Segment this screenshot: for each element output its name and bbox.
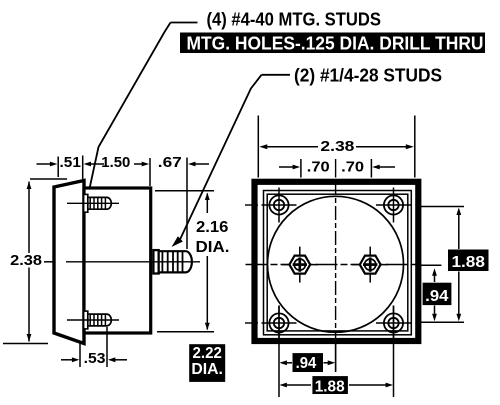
mounting hole bottom-right <box>376 306 411 341</box>
label (2) #1/4-28 STUDS <box>294 65 442 85</box>
terminal stud (#1/4-28) side view <box>66 250 200 273</box>
callout bar MTG. HOLES-.125 DIA. DRILL THRU <box>180 33 485 54</box>
extension line body rear (1.50/.67) <box>149 158 151 186</box>
svg-text:.94: .94 <box>425 288 449 305</box>
rear view inner square 1 <box>264 191 412 335</box>
svg-text:DIA.: DIA. <box>191 361 223 378</box>
rear view outer flange (thick square) <box>255 182 419 341</box>
dimension 2.16 DIA. <box>155 191 229 332</box>
svg-text:(2) #1/4-28 STUDS: (2) #1/4-28 STUDS <box>294 65 442 85</box>
svg-text:.70: .70 <box>341 159 364 175</box>
svg-text:.53: .53 <box>84 351 106 367</box>
dimension 1.88 right side <box>448 208 489 322</box>
label (4) #4-40 MTG. STUDS <box>207 10 382 30</box>
extension lines below rear view <box>279 306 394 398</box>
arrow out of .67 <box>188 162 209 167</box>
leader dash for #1/4-28 label <box>262 74 291 76</box>
svg-text:DIA.: DIA. <box>196 239 230 256</box>
terminal stud right (hex) <box>352 247 388 283</box>
dimension .70 .70 rear view <box>279 159 395 178</box>
centerline stub left top hole row <box>245 204 258 206</box>
svg-text:.94: .94 <box>296 355 317 372</box>
horizontal centerline rear view <box>246 264 419 266</box>
dimension text .67 <box>158 155 182 171</box>
svg-text:MTG. HOLES-.125 DIA. DRILL THR: MTG. HOLES-.125 DIA. DRILL THRU <box>187 33 484 53</box>
mounting stud top (#4-40) side view <box>67 194 119 212</box>
mounting stud bottom (#4-40) side view <box>67 311 119 329</box>
dimension .53 below bezel <box>61 327 127 367</box>
leader line to top mounting stud <box>86 23 171 198</box>
arrow out of .51 right <box>84 162 105 167</box>
arrow into .51 left <box>37 162 58 167</box>
svg-text:2.22: 2.22 <box>193 345 222 362</box>
boxed dimension 2.22 DIA. <box>189 344 225 382</box>
side view meter body <box>84 188 151 333</box>
leader line to 1/4-28 stud <box>172 75 262 247</box>
svg-text:.51: .51 <box>60 155 81 171</box>
dimension 1.88 bottom <box>279 376 393 395</box>
extension line bezel front (.51) <box>57 157 59 178</box>
terminal stud left (hex) <box>282 247 318 283</box>
dimension .94 right side <box>423 268 452 321</box>
dimension .94 bottom <box>279 353 335 372</box>
svg-text:.70: .70 <box>307 159 330 175</box>
extension line stud tip (.67) <box>186 158 188 250</box>
svg-text:2.38: 2.38 <box>10 253 42 269</box>
dimension text 1.50 <box>101 155 130 171</box>
vertical centerline rear view <box>335 159 337 371</box>
arrow into ext C <box>134 162 149 167</box>
mounting hole top-left <box>262 188 297 223</box>
rear view inner square 2 <box>267 194 408 331</box>
svg-text:1.88: 1.88 <box>315 379 345 396</box>
leader dash for #4-40 label <box>171 22 198 24</box>
dimension text .51 <box>60 155 81 171</box>
svg-text:1.88: 1.88 <box>452 254 486 271</box>
mounting hole top-right <box>376 188 411 223</box>
dimension 2.38 side view <box>3 179 67 344</box>
svg-text:2.38: 2.38 <box>320 139 354 155</box>
mounting hole bottom-left <box>262 306 297 341</box>
centerline stub left bottom hole row <box>245 322 258 324</box>
rear view meter barrel circle <box>268 196 404 332</box>
dimension 2.38 rear view <box>258 116 415 178</box>
svg-text:(4) #4-40 MTG. STUDS: (4) #4-40 MTG. STUDS <box>207 10 382 30</box>
extension line bezel rear (.51/1.50) <box>82 156 84 180</box>
side view bezel (front flange) <box>54 181 84 344</box>
svg-text:1.50: 1.50 <box>101 155 130 171</box>
extension lines right side <box>419 207 465 323</box>
svg-text:2.16: 2.16 <box>196 219 229 236</box>
svg-text:.67: .67 <box>158 155 182 171</box>
